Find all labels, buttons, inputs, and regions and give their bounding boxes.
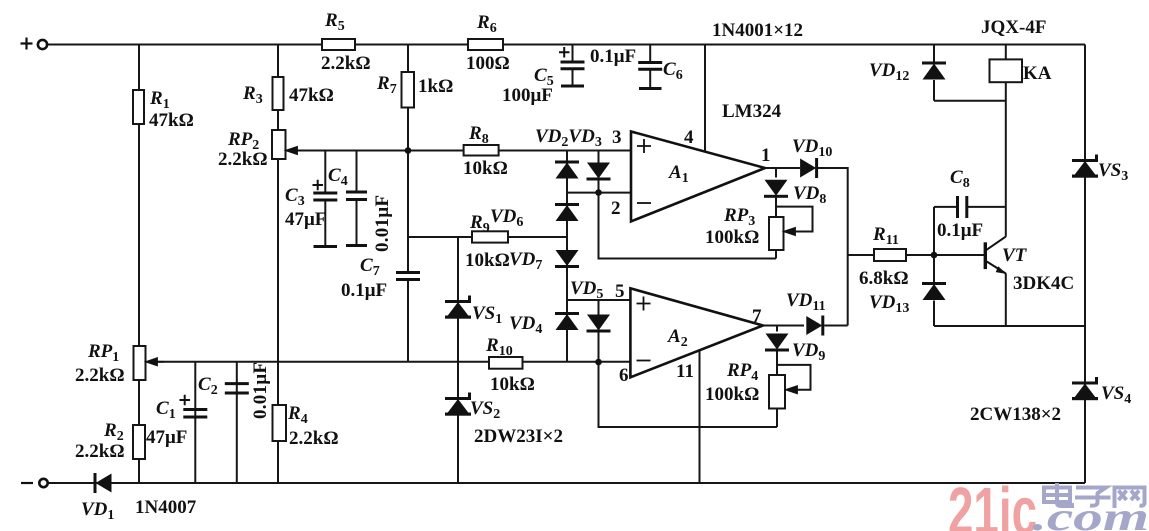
svg-text:0.1μF: 0.1μF [341, 280, 387, 301]
svg-text:47μF: 47μF [146, 427, 187, 448]
svg-text:A1: A1 [668, 162, 689, 186]
svg-text:6: 6 [619, 365, 629, 386]
svg-text:JQX-4F: JQX-4F [981, 17, 1046, 38]
svg-text:C6: C6 [663, 59, 683, 83]
svg-text:R6: R6 [476, 12, 497, 36]
svg-text:2.2kΩ: 2.2kΩ [321, 53, 371, 74]
svg-text:21ic: 21ic [948, 474, 1037, 531]
svg-text:1N4007: 1N4007 [135, 497, 197, 518]
svg-text:C3: C3 [285, 185, 305, 209]
svg-text:A2: A2 [667, 326, 688, 350]
svg-text:100μF: 100μF [502, 85, 553, 106]
svg-text:VD5: VD5 [570, 278, 603, 302]
svg-text:VD13: VD13 [869, 292, 909, 316]
svg-text:C1: C1 [156, 398, 176, 422]
svg-text:VD7: VD7 [509, 249, 542, 273]
svg-text:7: 7 [752, 306, 762, 327]
svg-text:VS1: VS1 [472, 303, 502, 327]
svg-text:C2: C2 [198, 374, 218, 398]
svg-text:VS3: VS3 [1098, 160, 1128, 184]
svg-text:10kΩ: 10kΩ [463, 158, 508, 179]
svg-text:KA: KA [1023, 63, 1052, 84]
svg-text:VT: VT [1002, 245, 1028, 266]
svg-text:RP1: RP1 [87, 341, 119, 365]
svg-text:VD8: VD8 [793, 183, 826, 207]
svg-text:0.01μF: 0.01μF [250, 362, 271, 419]
svg-text:RP4: RP4 [726, 360, 758, 384]
svg-text:2DW23I×2: 2DW23I×2 [474, 426, 563, 447]
svg-text:100Ω: 100Ω [466, 53, 510, 74]
svg-text:6.8kΩ: 6.8kΩ [859, 268, 909, 289]
svg-text:1: 1 [761, 145, 771, 166]
svg-text:3DK4C: 3DK4C [1013, 273, 1074, 294]
svg-text:100kΩ: 100kΩ [705, 384, 759, 405]
svg-text:VD11: VD11 [786, 290, 826, 314]
svg-text:3: 3 [612, 127, 622, 148]
svg-text:VD9: VD9 [792, 340, 825, 364]
svg-text:VD6: VD6 [490, 206, 523, 230]
svg-text:2: 2 [611, 198, 621, 219]
svg-text:R1: R1 [149, 88, 170, 112]
svg-text:0.1μF: 0.1μF [937, 220, 983, 241]
svg-text:VD4: VD4 [509, 313, 542, 337]
svg-text:C4: C4 [328, 165, 348, 189]
svg-text:R4: R4 [287, 403, 308, 427]
svg-text:2.2kΩ: 2.2kΩ [75, 365, 125, 386]
svg-text:10kΩ: 10kΩ [490, 374, 535, 395]
svg-text:2CW138×2: 2CW138×2 [970, 404, 1061, 425]
svg-text:4: 4 [684, 127, 694, 148]
svg-text:R10: R10 [485, 335, 513, 359]
svg-text:1N4001×12: 1N4001×12 [712, 20, 803, 41]
svg-text:R7: R7 [376, 73, 397, 97]
svg-text:100kΩ: 100kΩ [705, 227, 759, 248]
svg-text:10kΩ: 10kΩ [465, 250, 510, 271]
svg-text:2.2kΩ: 2.2kΩ [218, 149, 268, 170]
svg-text:R3: R3 [242, 83, 263, 107]
svg-text:VS2: VS2 [470, 398, 500, 422]
svg-text:0.1μF: 0.1μF [590, 46, 636, 67]
svg-text:VD12: VD12 [869, 60, 909, 84]
svg-text:LM324: LM324 [722, 101, 782, 122]
svg-text:47μF: 47μF [285, 209, 326, 230]
svg-text:R11: R11 [872, 224, 899, 248]
svg-text:C8: C8 [950, 167, 970, 191]
svg-text:VD10: VD10 [792, 136, 832, 160]
svg-text:47kΩ: 47kΩ [149, 110, 194, 131]
svg-text:R5: R5 [324, 10, 345, 34]
svg-text:2.2kΩ: 2.2kΩ [75, 441, 125, 462]
svg-text:R8: R8 [468, 123, 489, 147]
svg-text:VD1: VD1 [81, 499, 114, 523]
svg-text:VS4: VS4 [1101, 383, 1131, 407]
svg-text:5: 5 [615, 281, 625, 302]
svg-text:R9: R9 [469, 212, 490, 236]
svg-text:VD2VD3: VD2VD3 [535, 126, 602, 150]
svg-text:11: 11 [676, 361, 694, 382]
svg-text:C7: C7 [360, 255, 380, 279]
svg-text:2.2kΩ: 2.2kΩ [289, 428, 339, 449]
svg-text:RP3: RP3 [723, 205, 755, 229]
svg-text:1kΩ: 1kΩ [418, 76, 453, 97]
svg-text:0.01μF: 0.01μF [372, 195, 393, 252]
svg-text:47kΩ: 47kΩ [289, 85, 334, 106]
